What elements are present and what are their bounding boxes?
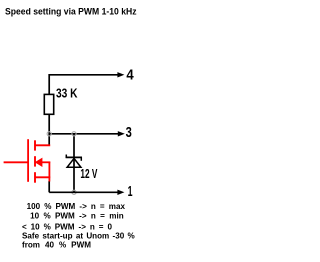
MOSFET channel segment top (34, 140, 36, 150)
junction dot zener top (72, 132, 76, 136)
zener diode D1 cathode bar (66, 156, 82, 158)
zener anode triangle (67, 158, 81, 167)
MOSFET body arrow shaft (41, 161, 50, 163)
MOSFET body arrow head (35, 158, 43, 167)
arrowhead pin 4 (117, 72, 124, 77)
svg-text:100 % PWM -> n = max: 100 % PWM -> n = max (27, 202, 126, 211)
MOSFET channel segment middle (34, 156, 36, 166)
svg-text:< 10 % PWM -> n = 0: < 10 % PWM -> n = 0 (22, 223, 112, 232)
MOSFET source lead (35, 176, 50, 178)
arrowhead pin 3 (118, 131, 125, 136)
svg-text:4: 4 (126, 67, 134, 84)
junction dot zener bottom (72, 190, 76, 194)
wire resistor top (48, 74, 50, 94)
MOSFET gate bar (27, 139, 29, 182)
arrowhead pin 1 (117, 190, 124, 195)
wire top rail to pin 4 (49, 74, 118, 76)
svg-text:Speed setting via PWM 1-10 kHz: Speed setting via PWM 1-10 kHz (5, 7, 137, 17)
MOSFET drain lead (35, 144, 50, 146)
svg-text:12 V: 12 V (80, 166, 97, 181)
junction dot resistor/drain/rail3 (47, 132, 51, 136)
wire resistor bottom to drain (48, 114, 50, 145)
MOSFET source/body vertical (red) (48, 162, 50, 182)
svg-text:from 40 % PWM: from 40 % PWM (22, 241, 91, 250)
transistor Q1 MOSFET gate lead (4, 161, 29, 163)
svg-text:33 K: 33 K (56, 85, 78, 100)
zener left tick (65, 155, 67, 159)
wire mosfet source to bottom rail (black) (48, 181, 50, 192)
resistor R 33K body (44, 94, 53, 114)
wire bottom rail to pin 1 (49, 191, 117, 193)
svg-text:3: 3 (126, 124, 132, 141)
wire zener vertical (73, 134, 75, 193)
svg-text:Safe start-up at Unom -30 %: Safe start-up at Unom -30 % (22, 232, 135, 241)
svg-text:1: 1 (128, 183, 133, 200)
svg-text:10 % PWM -> n = min: 10 % PWM -> n = min (30, 211, 124, 220)
wire mid rail to pin 3 (49, 133, 118, 135)
MOSFET channel segment bottom (34, 172, 36, 183)
zener right tick (80, 157, 82, 161)
